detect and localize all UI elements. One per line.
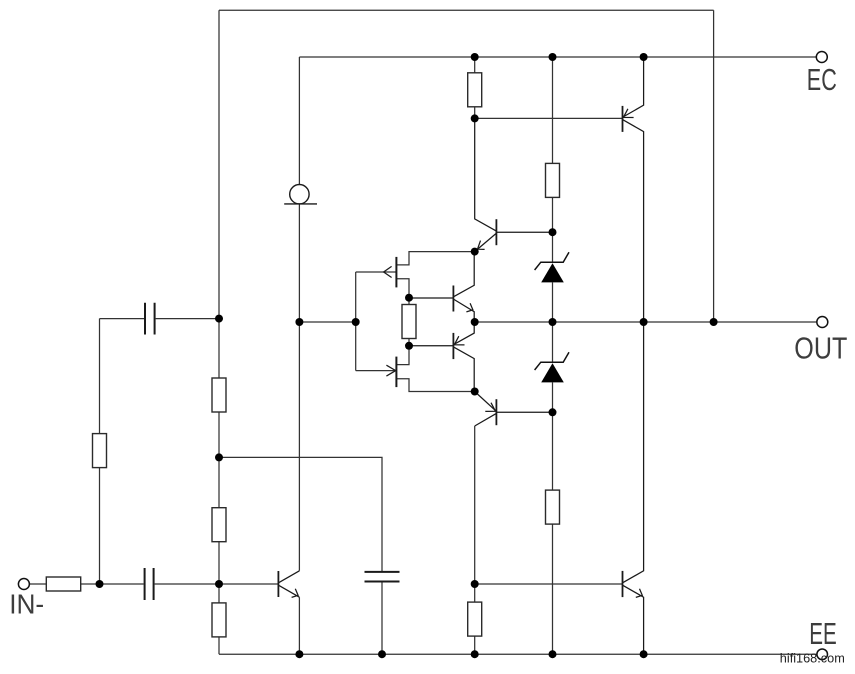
- wire C3 to left trunk node: [155, 583, 219, 585]
- junction dot Q9 base node: [471, 580, 479, 588]
- wire left trunk R3 to node: [218, 542, 220, 584]
- junction dot EE-Q7: [295, 650, 303, 658]
- jfet J2: [386, 357, 396, 388]
- wire Q8 base: [475, 117, 623, 119]
- wire current source drop: [298, 57, 300, 185]
- current source CS1: [284, 185, 317, 204]
- junction dot EC-T2: [640, 53, 648, 61]
- wire left trunk to R2: [218, 319, 220, 378]
- terminal IN-: [18, 579, 29, 590]
- wire input node to C3: [100, 583, 144, 585]
- junction dot R5 bottom: [405, 342, 413, 350]
- terminal EE: [817, 649, 828, 660]
- wire Q9 base node to R8: [474, 584, 476, 602]
- resistor R3: [212, 508, 226, 542]
- zener diode Z1: [535, 252, 569, 282]
- junction dot Q4 base node: [549, 408, 557, 416]
- wire feedback row: [219, 457, 382, 572]
- wire R8 to EE rail: [474, 636, 476, 654]
- wire J1 drain lead: [397, 252, 475, 265]
- junction dot OUT-right trunk: [710, 318, 718, 326]
- wire OUT node to zener Z2: [552, 322, 554, 362]
- resistor R8: [468, 602, 482, 636]
- junction dot OUT-T2: [640, 318, 648, 326]
- resistor R4: [212, 603, 226, 637]
- transistor Q4: [475, 392, 553, 427]
- capacitor C1 plates: [145, 303, 155, 335]
- wire top rail: [219, 9, 714, 11]
- resistor R10: [93, 434, 107, 468]
- transistor Q3: [475, 118, 553, 251]
- junction dot EC-zener trunk: [549, 53, 557, 61]
- wire current source to Q7 collector: [298, 204, 300, 571]
- wire J1 source lead: [397, 279, 409, 298]
- wire T1 trunk R1 to Q8 base node: [474, 107, 476, 119]
- junction dot EE-C2: [378, 650, 386, 658]
- wire zener trunk top: [552, 57, 554, 163]
- wire C2 to EE rail: [381, 582, 383, 655]
- resistor R2: [212, 378, 226, 412]
- transistor Q8: [623, 57, 644, 322]
- wire J1 gate lead: [356, 271, 396, 273]
- wire Z1 to OUT node: [552, 282, 554, 322]
- terminal EC: [816, 52, 827, 63]
- resistor R7: [546, 490, 560, 524]
- junction dot EC-T1: [471, 53, 479, 61]
- junction dot Q7 base node: [215, 580, 223, 588]
- wire left trunk node to R3: [218, 457, 220, 507]
- wire OUT row: [475, 321, 817, 323]
- wire J2 source lead: [397, 379, 475, 392]
- wire input column lower: [99, 468, 101, 584]
- wire C1 left lead: [100, 318, 145, 320]
- wire node to gate bracket: [299, 321, 355, 323]
- resistor R6: [546, 163, 560, 197]
- capacitor C3 plates: [145, 568, 154, 600]
- wire R5 bottom stub: [408, 339, 410, 346]
- wire gate bracket vertical: [355, 272, 357, 371]
- junction dot Q8 base node: [471, 114, 479, 122]
- wire right trunk: [713, 10, 715, 322]
- wire zener trunk R6 to Q3 base node: [552, 197, 554, 232]
- transistor Q6: [409, 322, 474, 392]
- wire J2 gate lead: [356, 370, 396, 372]
- wire input column upper: [99, 319, 101, 434]
- wire R9 to input node: [81, 583, 100, 585]
- svg-text:OUT: OUT: [794, 331, 847, 365]
- wire J2 drain lead: [397, 346, 409, 365]
- wire C1 right lead: [156, 318, 219, 320]
- svg-text:hifi168.com: hifi168.com: [780, 650, 845, 665]
- wire Q7 emitter to EE rail: [298, 597, 300, 654]
- junction dot EE-Q9: [640, 650, 648, 658]
- wire left trunk node to R4: [218, 584, 220, 603]
- junction dot gate bracket: [352, 318, 360, 326]
- wire R5 top stub: [408, 298, 410, 305]
- wire Q4 collector to Q9 base node: [474, 426, 476, 584]
- wire left trunk R4 to EE rail: [218, 637, 220, 654]
- transistor Q7: [278, 571, 299, 598]
- transistor Q9: [623, 322, 644, 654]
- wire Q4 base node to R7: [552, 412, 554, 490]
- wire EC rail: [299, 56, 816, 58]
- zener diode Z2: [535, 352, 569, 382]
- junction dot OUT-T1: [471, 318, 479, 326]
- wire left trunk upper: [218, 10, 220, 318]
- junction dot Q3 emitter node: [471, 248, 479, 256]
- junction dot Q4 emitter node: [471, 388, 479, 396]
- wire Q9 base: [475, 583, 623, 585]
- junction dot R5 top: [405, 294, 413, 302]
- wire IN terminal to R9: [30, 583, 47, 585]
- junction dot Q3 base node: [549, 228, 557, 236]
- capacitor C2 plates: [365, 572, 400, 582]
- wire Q3 base node to zener Z1: [552, 232, 554, 262]
- junction dot EE-R7: [549, 650, 557, 658]
- junction dot CS trunk OUT row: [295, 318, 303, 326]
- junction dot input node: [96, 580, 104, 588]
- svg-text:EE: EE: [809, 617, 837, 651]
- resistor R1: [468, 73, 482, 107]
- svg-text:IN-: IN-: [9, 589, 44, 620]
- svg-text:EC: EC: [807, 63, 837, 97]
- wire R7 to EE rail: [552, 524, 554, 654]
- junction dot OUT-zener trunk: [549, 318, 557, 326]
- junction dot feedback node: [215, 453, 223, 461]
- junction dot EE-R8: [471, 650, 479, 658]
- transistor Q5: [409, 252, 474, 322]
- wire T1 trunk EC to R1: [474, 57, 476, 73]
- wire Z2 to Q4 base node: [552, 382, 554, 412]
- wire EE bottom rail: [219, 653, 817, 655]
- junction dot C1 right: [215, 315, 223, 323]
- resistor R9: [46, 577, 80, 591]
- terminal OUT: [817, 317, 828, 328]
- wire left trunk R2 to node: [218, 412, 220, 457]
- resistor R5: [402, 305, 416, 339]
- jfet J1: [384, 257, 397, 288]
- wire Q7 base: [219, 583, 278, 585]
